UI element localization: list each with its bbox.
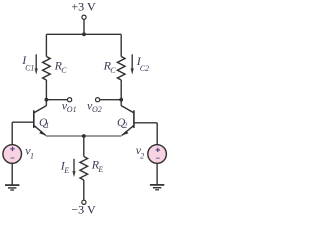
- svg-text:O2: O2: [92, 105, 102, 114]
- wire RE lower: [83, 180, 85, 200]
- terminal vO2: [96, 98, 100, 102]
- wire top rail: [46, 33, 121, 35]
- svg-text:C1: C1: [25, 64, 34, 73]
- wire v2 to ground: [156, 163, 158, 185]
- svg-text:C: C: [110, 66, 116, 75]
- label v1: [25, 144, 34, 161]
- label RE: [91, 158, 104, 174]
- label Q1: [39, 117, 49, 130]
- current arrow IC2: [131, 54, 134, 74]
- label IE: [60, 159, 70, 175]
- ground v1: [5, 185, 19, 190]
- resistor RE: [80, 157, 88, 181]
- wire RE upper: [83, 136, 85, 157]
- svg-text:2: 2: [140, 152, 144, 161]
- label IC1: [21, 53, 34, 73]
- svg-text:1: 1: [30, 152, 34, 161]
- wire right branch upper: [120, 34, 122, 56]
- svg-text:+3 V: +3 V: [71, 0, 96, 14]
- wire v1 to base: [11, 122, 13, 145]
- wire right branch lower: [120, 80, 122, 106]
- wire base Q1: [12, 121, 34, 123]
- transistor Q2: [121, 106, 134, 136]
- svg-text:1: 1: [45, 121, 49, 130]
- svg-text:2: 2: [123, 121, 127, 130]
- wire v2 to base: [156, 123, 158, 145]
- terminal +3V: [82, 15, 86, 19]
- wire to vO1 terminal: [46, 99, 67, 101]
- label IC2: [136, 54, 149, 73]
- wire to vO2 terminal: [100, 99, 121, 101]
- source v2: [148, 145, 167, 164]
- current arrow IC1: [35, 54, 38, 74]
- svg-text:−3 V: −3 V: [71, 203, 96, 217]
- svg-text:C2: C2: [140, 64, 149, 73]
- junction emitter node: [82, 134, 86, 138]
- svg-text:E: E: [97, 165, 103, 174]
- wire left branch lower: [45, 80, 47, 106]
- current arrow IE: [72, 159, 75, 178]
- svg-text:O1: O1: [67, 105, 77, 114]
- label v2: [136, 143, 145, 161]
- junction collector Q2: [119, 98, 123, 102]
- resistor RC1: [43, 57, 51, 81]
- label RC left: [54, 59, 68, 76]
- label vO1: [62, 99, 77, 115]
- terminal vO1: [68, 98, 72, 102]
- wire emitter rail: [46, 135, 121, 137]
- label RC right: [103, 59, 117, 76]
- source v1: [3, 145, 22, 164]
- resistor RC2: [117, 57, 125, 81]
- junction collector Q1 / vO1: [45, 98, 49, 102]
- label Q2: [117, 117, 127, 130]
- terminal -3V: [82, 200, 86, 204]
- wire supply stub: [83, 19, 85, 34]
- junction top node: [82, 32, 86, 36]
- svg-text:E: E: [63, 166, 69, 175]
- wire left branch upper: [45, 34, 47, 56]
- svg-text:C: C: [61, 66, 67, 75]
- wire base Q2: [134, 122, 157, 124]
- wire v1 to ground: [11, 163, 13, 185]
- transistor Q1: [34, 106, 47, 136]
- label vO2: [87, 99, 102, 115]
- ground v2: [150, 185, 164, 190]
